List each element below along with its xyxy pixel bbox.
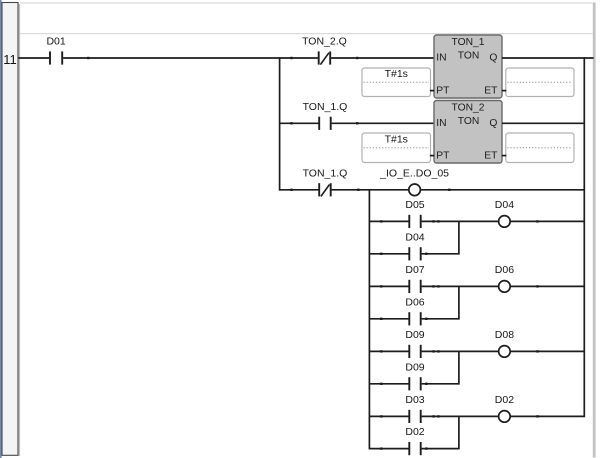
wire r7 contact to join	[422, 318, 459, 320]
node r7 b	[425, 318, 427, 320]
svg-text:D04: D04	[405, 231, 424, 243]
node r4 a	[380, 220, 382, 222]
svg-text:TON_2.Q: TON_2.Q	[302, 36, 347, 48]
coil D06 coil r6 (D06)	[495, 264, 514, 292]
wire r8 contact to coil	[422, 350, 499, 352]
svg-text:D03: D03	[405, 394, 424, 406]
node r8 a	[380, 350, 382, 352]
node row3 b	[357, 189, 359, 191]
svg-text:ET: ET	[484, 150, 498, 161]
wire r10 feed to contact	[369, 415, 408, 417]
contact D09 r8 (D09)	[405, 329, 424, 358]
node r8 d	[536, 350, 538, 352]
svg-text:ET: ET	[484, 85, 498, 96]
node r6 a	[380, 285, 382, 287]
right power rail	[593, 3, 596, 458]
svg-text:TON: TON	[458, 116, 480, 127]
wire row3 branch to TON_1.Q contact	[280, 189, 319, 191]
svg-text:PT: PT	[436, 85, 450, 96]
node r9 a	[380, 383, 382, 385]
wire row1 TON_1 Q to right rail	[502, 57, 594, 59]
rung margin panel	[2, 3, 20, 457]
svg-text:T#1s: T#1s	[385, 133, 408, 145]
node r11 b	[425, 447, 427, 449]
wire TON_2 PT pin tick	[430, 155, 434, 157]
node r10 b	[432, 415, 434, 417]
node r5 a	[380, 253, 382, 255]
timer function block U1 (TON_1 : TON)	[434, 35, 502, 98]
wire TON_1 PT pin tick	[430, 90, 434, 92]
wire row1 left rail to D01	[19, 57, 50, 59]
top border line	[20, 2, 593, 4]
node r11 a	[380, 447, 382, 449]
timer function block U2 (TON_2 : TON)	[434, 101, 502, 164]
svg-text:IN: IN	[436, 118, 446, 129]
node r10 a	[380, 415, 382, 417]
wire row2 TON_2 Q to collector	[502, 122, 584, 124]
node row2 a	[290, 122, 292, 124]
wire row2 contact to TON_2 IN	[332, 122, 435, 124]
coil D04 coil r4 (D04)	[495, 199, 514, 227]
node row1 a	[87, 57, 89, 59]
operand box ET output TON_1	[506, 68, 574, 97]
svg-text:IN: IN	[436, 53, 446, 64]
svg-text:Q: Q	[489, 118, 497, 129]
operand box PT input TON_1 (T#1s)	[362, 68, 431, 97]
wire row1 contact to TON_1 IN	[331, 57, 434, 59]
svg-text:D07: D07	[405, 264, 424, 276]
svg-text:D02: D02	[495, 394, 514, 406]
node row3 c	[448, 189, 450, 191]
svg-text:TON_2: TON_2	[451, 103, 484, 114]
node r6 d	[536, 285, 538, 287]
svg-text:D08: D08	[495, 329, 514, 341]
wire r6 coil to collector	[510, 285, 584, 287]
node r10 c	[437, 415, 439, 417]
wire row2 branch to TON_1.Q contact	[280, 122, 319, 124]
wire join vertical r6-r7	[458, 286, 460, 320]
contact D07 r6 (D07)	[405, 264, 424, 293]
node r6 b	[432, 285, 434, 287]
svg-text:TON_1: TON_1	[451, 37, 484, 48]
svg-text:D01: D01	[46, 36, 65, 48]
wire r6 contact to coil	[422, 285, 499, 287]
coil D08 coil r8 (D08)	[495, 329, 514, 357]
wire r4 contact to coil	[422, 220, 499, 222]
svg-text:Q: Q	[489, 53, 497, 64]
coil D02 coil r10 (D02)	[495, 394, 514, 422]
wire row3 coil to collector	[421, 189, 585, 191]
contact D04 r5 (D04)	[405, 231, 424, 260]
svg-text:D04: D04	[495, 199, 514, 211]
node r5 b	[425, 253, 427, 255]
contact TON_1.Q row3 (TON_1.Q, NC)	[303, 167, 348, 196]
wire join vertical r10-r11	[458, 416, 460, 450]
wire r7 feed to contact	[369, 318, 408, 320]
svg-text:_IO_E..DO_05: _IO_E..DO_05	[379, 167, 449, 179]
node r10 d	[536, 415, 538, 417]
contact TON_2.Q (TON_2.Q, NC)	[302, 36, 347, 65]
wire join vertical r4-r5	[458, 221, 460, 255]
node r4 b	[432, 220, 434, 222]
svg-text:TON_1.Q: TON_1.Q	[303, 101, 348, 113]
node row2 b	[356, 122, 358, 124]
wire r9 contact to join	[422, 383, 459, 385]
wire r5 feed to contact	[369, 253, 408, 255]
node row1 c	[356, 57, 358, 59]
wire r8 coil to collector	[510, 350, 584, 352]
wire TON_1 ET pin tick	[502, 90, 507, 92]
wire r8 feed to contact	[369, 350, 408, 352]
wire r9 feed to contact	[369, 383, 408, 385]
contact D09 r9 (D09)	[405, 361, 424, 390]
svg-text:D06: D06	[495, 264, 514, 276]
node r6 c	[437, 285, 439, 287]
wire r5 contact to join	[422, 253, 459, 255]
wire row1 D01 to branch node	[63, 57, 318, 59]
node r4 d	[536, 220, 538, 222]
svg-text:D02: D02	[405, 426, 424, 438]
wire row3 contact to coil	[332, 189, 409, 191]
rung header separator line	[20, 33, 593, 35]
node r8 b	[432, 350, 434, 352]
contact D02 r11 (D02)	[405, 426, 424, 455]
contact D06 r7 (D06)	[405, 296, 424, 325]
svg-text:PT: PT	[436, 150, 450, 161]
wire r11 feed to contact	[369, 448, 408, 450]
node r9 b	[425, 383, 427, 385]
wire parallel network feed vertical	[368, 189, 370, 449]
wire r4 feed to contact	[369, 220, 408, 222]
svg-text:T#1s: T#1s	[385, 68, 408, 80]
svg-text:D05: D05	[405, 199, 424, 211]
svg-text:D09: D09	[405, 329, 424, 341]
svg-text:11: 11	[3, 52, 17, 67]
node r4 c	[437, 220, 439, 222]
wire TON_2 ET pin tick	[502, 155, 507, 157]
contact D05 r4 (D05)	[405, 199, 424, 228]
wire r6 feed to contact	[369, 285, 408, 287]
wire branch vertical left	[279, 57, 281, 190]
svg-text:TON_1.Q: TON_1.Q	[303, 167, 348, 179]
contact D01 (D01)	[46, 36, 65, 65]
coil _IO_E..DO_05 (_IO_E..DO_05)	[379, 167, 449, 195]
wire collector vertical right	[583, 57, 585, 417]
svg-text:D09: D09	[405, 361, 424, 373]
wire r10 contact to coil	[422, 415, 499, 417]
contact TON_1.Q row2 (TON_1.Q)	[303, 101, 348, 130]
wire join vertical r8-r9	[458, 351, 460, 385]
wire r4 coil to collector	[510, 220, 584, 222]
operand box ET output TON_2	[506, 133, 574, 163]
node r8 c	[437, 350, 439, 352]
window left border	[0, 0, 2, 458]
svg-text:D06: D06	[405, 296, 424, 308]
operand box PT input TON_2 (T#1s)	[362, 133, 431, 163]
svg-text:TON: TON	[458, 51, 480, 62]
wire r10 coil to collector	[510, 415, 584, 417]
wire r11 contact to join	[422, 448, 459, 450]
node r7 a	[380, 318, 382, 320]
node row1 b	[290, 57, 292, 59]
contact D03 r10 (D03)	[405, 394, 424, 423]
node row3 a	[290, 189, 292, 191]
